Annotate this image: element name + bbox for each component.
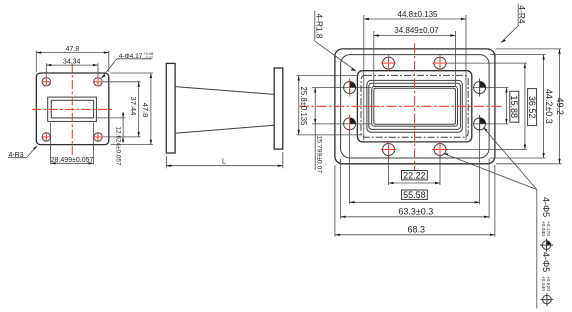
svg-text:34.34: 34.34 [63,58,81,65]
svg-text:L: L [222,158,226,165]
dimension 49.2 right [496,49,565,164]
hole bottom-right (right view) [432,141,448,158]
aperture inner rect (left view) [51,100,93,118]
hole bottom-right (left view) [93,132,103,142]
hole top-right (right view) [432,55,448,72]
groove inner rect [369,83,461,129]
side hole left-upper [344,79,356,97]
boxed dimension 36.52 right [446,63,537,149]
svg-text:44.8±0.135: 44.8±0.135 [398,10,439,19]
svg-text:68.3: 68.3 [408,224,426,234]
corner radius label 4-R3 [8,145,37,158]
side hole left-lower [344,115,356,133]
dimension 44.2 right [490,55,554,158]
right end flange plate (side view) [274,68,283,149]
side hole right-lower [474,115,486,133]
svg-text:+0.040: +0.040 [540,221,546,236]
dimension L [166,152,282,168]
vertical centerline (right view) [414,43,416,171]
dimension 25.8 left [297,76,363,135]
hole bottom-left (left view) [42,132,52,142]
dimension 34.34 [46,58,98,77]
boss outline [357,71,471,142]
corner radius label 4-R1.8 [314,11,356,71]
svg-text:63.3±0.3: 63.3±0.3 [398,206,433,216]
hole top-left (left view) [42,77,52,87]
vertical centerline (left view) [71,64,73,155]
groove outer rect [367,80,462,132]
right flange inner outline [341,55,490,158]
taper top wire [175,87,274,95]
svg-text:4-R4: 4-R4 [517,5,527,23]
side hole right-upper [474,79,486,97]
position symbol filled [540,239,553,252]
svg-text:44.2±0.3: 44.2±0.3 [544,89,554,124]
svg-text:15.799±0.07: 15.799±0.07 [315,135,322,173]
left flange plate [36,73,109,145]
svg-text:15.88: 15.88 [509,95,519,118]
aperture inner rect (right view) [374,88,456,124]
svg-text:47.8: 47.8 [65,46,79,53]
svg-text:4-R1.8: 4-R1.8 [314,13,324,38]
taper bottom wire [175,125,274,133]
right flange outer outline [335,49,495,164]
hole top-left (right view) [381,55,397,72]
svg-text:4-Φ5: 4-Φ5 [541,197,551,217]
svg-text:36.52: 36.52 [527,96,537,119]
hole bottom-left (right view) [381,141,397,158]
svg-text:22.22: 22.22 [403,171,426,181]
hole callout 4-phi5 lower text [540,252,551,291]
svg-text:28.499±0.057: 28.499±0.057 [51,157,94,164]
dimension 28.499 bottom [51,123,94,165]
corner radius label 4-R4 [501,4,528,43]
hole top-right (left view) [93,77,103,87]
boxed dimension 15.88 right [474,88,519,124]
hole callout 4-phi5 upper text [540,197,551,236]
aperture outer rect (right view) [372,87,458,127]
dimension 47.8 top [36,46,109,72]
svg-text:–0.02: –0.02 [144,56,154,60]
dimension 47.8 (vertical right) [111,73,153,145]
svg-text:25.8±0.135: 25.8±0.135 [299,87,308,127]
dimension 12.624 (vertical) [96,112,126,166]
svg-text:+0.040: +0.040 [540,276,546,291]
svg-text:4-Φ5: 4-Φ5 [541,252,551,272]
dimension 44.8 top [364,10,466,141]
aperture outer rect (left view) [48,97,97,121]
horizontal centerline (right view) [299,105,503,107]
gasket chain line [361,75,468,137]
dimension 63.3 bottom [341,159,490,219]
svg-text:49.2: 49.2 [555,98,565,116]
svg-text:34.849±0.07: 34.849±0.07 [394,26,439,35]
dimension 37.44 (vertical) [103,82,141,137]
hole callout 4-phi5 leaders [443,127,536,308]
left end flange plate (side view) [166,63,175,153]
dimension 15.799 left [312,88,371,174]
svg-text:12.624±0.057: 12.624±0.057 [114,127,121,166]
boxed dimension 55.58 bottom [350,131,480,205]
boxed dimension 22.22 bottom [389,156,441,186]
svg-text:55.58: 55.58 [403,190,426,200]
svg-text:37.44: 37.44 [129,96,138,115]
horizontal centerline (left view) [32,108,114,110]
dimension 34.849 [374,26,456,87]
svg-text:47.8: 47.8 [141,103,150,118]
dimension 68.3 bottom [335,165,495,237]
position symbol open [540,293,553,306]
hole callout 4-phi4.17 (left view) [101,52,153,79]
